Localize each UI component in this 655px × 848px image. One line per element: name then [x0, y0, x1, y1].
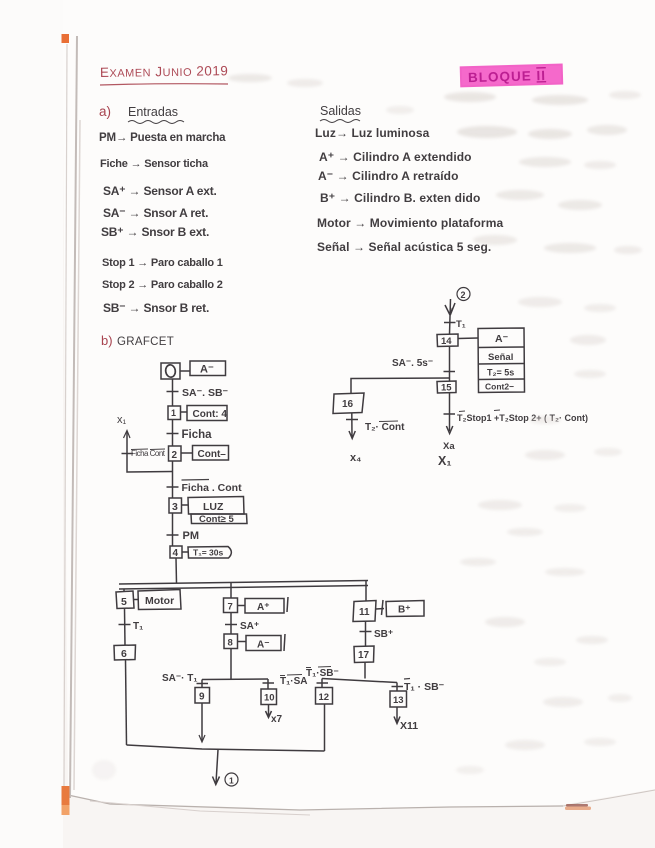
svg-text:A⁻: A⁻: [200, 364, 214, 376]
wire step3 down: [172, 513, 174, 546]
svg-text:5: 5: [121, 596, 127, 608]
svg-text:Xa: Xa: [443, 441, 455, 452]
step 14: [437, 334, 458, 347]
wire step14 down: [449, 346, 451, 381]
step 8: [224, 634, 238, 649]
svg-text:Motor: Motor: [145, 595, 174, 607]
parallel section labels: [121, 595, 445, 786]
svg-text:SB⁻ → Snsor B ret.: SB⁻ → Snsor B ret.: [103, 301, 209, 315]
salidas list: [315, 126, 503, 254]
wire step15 down: [449, 393, 451, 431]
svg-text:Salidas: Salidas: [320, 104, 361, 118]
svg-text:b): b): [101, 333, 113, 348]
OR branch wire to step 16: [351, 378, 450, 393]
link step8 to A-: [238, 641, 247, 643]
wire step1 down: [172, 420, 174, 447]
svg-text:9: 9: [199, 692, 205, 703]
svg-text:SA⁻. SB⁻: SA⁻. SB⁻: [182, 387, 229, 399]
entry arrow wire: [445, 299, 455, 334]
action box A-: [190, 361, 226, 376]
svg-text:T₁·SA: T₁·SA: [280, 676, 307, 687]
step 17: [354, 646, 374, 663]
stray stroke after A+ box: [287, 597, 288, 612]
transition tick PM: [167, 534, 179, 536]
svg-text:a): a): [99, 104, 111, 119]
transition tick exit: [444, 413, 456, 415]
title EXAMEN JUNIO 2019: [100, 63, 229, 85]
wire step4 down to divergence: [175, 558, 178, 583]
stray stroke after A- box: [284, 634, 285, 651]
heading b) GRAFCET: [101, 333, 174, 348]
right sub-diagram labels: [342, 290, 588, 468]
svg-text:Cont–: Cont–: [198, 449, 227, 460]
svg-text:A⁻: A⁻: [257, 640, 270, 651]
svg-text:Señal → Señal acústica: Señal → Señal acústica 5 seg.: [317, 240, 491, 254]
heading Salidas: [320, 104, 361, 123]
svg-text:2: 2: [172, 450, 178, 461]
svg-text:1: 1: [171, 408, 176, 418]
heading a) Entradas: [99, 104, 184, 124]
svg-text:LUZ: LUZ: [203, 501, 224, 513]
page bottom stacked edges: [68, 790, 655, 815]
feedback branch wire: [127, 432, 173, 472]
wire step9 down to convergence: [201, 703, 203, 741]
svg-text:x₄: x₄: [350, 452, 361, 464]
label Ficha(bar).Cont: [182, 480, 243, 495]
feedback transition tick: [122, 453, 134, 455]
svg-text:17: 17: [358, 650, 370, 661]
link step11 to B+: [376, 608, 384, 611]
wire step2 down: [172, 461, 174, 498]
action stack outer box: [478, 328, 525, 393]
stray stroke before B+ box: [382, 600, 384, 615]
label exit expression: [457, 410, 588, 423]
svg-text:A⁻: A⁻: [495, 333, 509, 345]
transition tick T1bar.SB-: [392, 686, 404, 688]
arrowhead step9 bottom: [199, 735, 205, 742]
action box Motor: [138, 590, 181, 610]
svg-text:8: 8: [228, 638, 233, 649]
link step5 to Motor: [134, 599, 138, 601]
link step3 to action: [182, 504, 189, 506]
svg-text:T₁·SB⁻: T₁·SB⁻: [306, 668, 339, 679]
svg-text:T₁: T₁: [133, 621, 143, 632]
svg-text:Luz→ Luz luminosa: Luz→ Luz luminosa: [315, 126, 430, 140]
svg-text:Entradas: Entradas: [128, 105, 178, 119]
svg-text:10: 10: [264, 693, 275, 704]
step 16: [333, 393, 364, 414]
link step14 to action stack: [458, 337, 478, 340]
action box Cont:4: [187, 406, 227, 421]
svg-text:T₁ · SB⁻: T₁ · SB⁻: [404, 681, 445, 693]
step 7: [224, 598, 238, 613]
step 9: [195, 688, 210, 704]
transition tick Ficha: [167, 433, 179, 435]
action box B+: [386, 601, 424, 617]
svg-text:12: 12: [319, 692, 330, 703]
transition tick T1.SA: [263, 682, 275, 684]
link step4 to action: [182, 551, 188, 553]
label T2.Contbar: [365, 421, 405, 433]
svg-text:T₂= 5s: T₂= 5s: [487, 368, 514, 378]
svg-text:Ficha Cont: Ficha Cont: [131, 449, 166, 458]
wire step8 down: [230, 649, 232, 680]
svg-text:1: 1: [229, 776, 234, 786]
wire step12 down to convergence: [324, 704, 326, 751]
transition tick T1.SB-: [317, 682, 329, 684]
svg-text:PM→ Puesta en marcha: PM→ Puesta en marcha: [99, 132, 226, 144]
step 12: [316, 688, 333, 705]
transition tick SB+: [360, 631, 372, 633]
svg-text:6: 6: [121, 648, 127, 660]
branch 2 wire: [230, 583, 232, 599]
branch 1 wire: [123, 589, 125, 593]
step 15: [437, 381, 456, 393]
svg-text:SA⁺: SA⁺: [240, 621, 259, 632]
branch 3 wire: [365, 581, 367, 601]
label T1bar.SB- (step13): [404, 679, 445, 694]
entradas list: [99, 132, 226, 315]
transition tick SA-.SB-: [167, 391, 179, 393]
transition tick SA-.5s: [444, 371, 456, 373]
svg-text:A⁺ → Cilindro A extendi: A⁺ → Cilindro A extendido: [319, 150, 472, 164]
orange tab bottom-left: [62, 786, 70, 815]
step 1: [168, 406, 181, 420]
action box Cont>=5: [191, 514, 247, 524]
circled 2 entry: [457, 288, 470, 301]
exit arrow X11: [394, 707, 400, 724]
svg-text:Cont: 4: Cont: 4: [193, 409, 228, 420]
label T1bar.SAbar: [280, 675, 307, 688]
step 0 (initial, double): [161, 363, 180, 379]
svg-text:SB⁺ → Snsor B ext.: SB⁺ → Snsor B ext.: [101, 225, 209, 239]
svg-text:Cont2−: Cont2−: [485, 382, 514, 392]
wire step6 down to convergence: [126, 660, 127, 745]
exit arrow x4: [349, 413, 355, 439]
wire step0 down: [172, 379, 174, 406]
orange smear bottom-right: [565, 804, 591, 810]
action stack divider 3: [478, 378, 524, 381]
svg-text:SA⁻. 5s⁻: SA⁻. 5s⁻: [392, 358, 433, 369]
svg-text:11: 11: [359, 607, 370, 618]
link step7 to A+: [238, 605, 246, 607]
wire step17 down: [364, 662, 366, 679]
transition tick T1 (entry): [444, 322, 456, 324]
divergence double bar: [119, 581, 368, 590]
drop wire to step 10: [267, 679, 269, 689]
svg-text:T₁= 30s: T₁= 30s: [193, 548, 223, 558]
svg-text:X11: X11: [400, 720, 418, 732]
label SA-.5s: [392, 358, 433, 369]
svg-text:x₁: x₁: [117, 414, 127, 426]
svg-text:3: 3: [172, 501, 178, 513]
svg-text:x7: x7: [271, 714, 283, 725]
link step1 to action: [181, 411, 188, 413]
svg-text:Fiche → Sensor ticha: Fiche → Sensor ticha: [100, 158, 209, 170]
step 10: [261, 689, 277, 705]
svg-text:Stop 2 → Paro caballo 2: Stop 2 → Paro caballo 2: [102, 279, 223, 291]
link step0 to action A-: [180, 370, 190, 372]
svg-text:PM: PM: [183, 530, 200, 542]
svg-text:SA⁻ → Snsor A ret.: SA⁻ → Snsor A ret.: [103, 206, 208, 220]
convergence line: [127, 745, 325, 751]
svg-text:SB⁺: SB⁺: [374, 629, 393, 640]
OR branch line under step 17: [322, 679, 397, 683]
label T1.SBbar- (step12): [306, 667, 339, 680]
step 4: [170, 546, 182, 558]
transition tick SA+: [225, 624, 237, 626]
link step2 to action: [181, 452, 193, 454]
BLOQUE II highlight: [460, 64, 564, 88]
action box A+: [245, 599, 284, 614]
step 11: [353, 601, 376, 622]
exit arrow X7: [266, 705, 272, 718]
svg-text:SA⁺ → Sensor A ext.: SA⁺ → Sensor A ext.: [103, 184, 217, 198]
exit arrowhead X1: [446, 426, 452, 434]
step 13: [390, 691, 407, 707]
svg-text:4: 4: [173, 548, 179, 559]
svg-text:A⁻ → Cilindro A retraíd: A⁻ → Cilindro A retraído: [318, 169, 459, 183]
drop wire to step 12: [321, 679, 323, 688]
drop wire to step 9: [201, 680, 203, 688]
svg-text:2: 2: [461, 290, 466, 300]
label Ficha.Cont (feedback, both overlined): [131, 449, 166, 458]
drop wire to step 13: [396, 683, 398, 692]
svg-text:Ficha . Cont: Ficha . Cont: [182, 482, 243, 494]
svg-text:B⁺: B⁺: [398, 605, 411, 616]
svg-text:T₁: T₁: [456, 319, 466, 330]
action box T1=30s: [188, 547, 231, 559]
svg-text:16: 16: [342, 399, 354, 410]
action stack divider 1: [478, 346, 524, 349]
step 2: [169, 446, 182, 461]
diagram labels main column: [171, 364, 242, 560]
wire step7 down: [230, 613, 232, 635]
wire step5 down: [124, 609, 127, 646]
action box A- (second): [246, 636, 281, 651]
svg-text:T₂Stop1 +T₂Stop 2+ ( T₂· Cont): T₂Stop1 +T₂Stop 2+ ( T₂· Cont): [457, 413, 588, 423]
svg-text:B⁺ → Cilindro B. exten: B⁺ → Cilindro B. exten dido: [320, 191, 480, 205]
svg-text:Ficha: Ficha: [182, 429, 213, 441]
svg-text:Motor → Movimiento plataform: Motor → Movimiento plataforma: [317, 216, 503, 230]
step 6: [114, 645, 136, 660]
left page crease lines: [64, 36, 80, 798]
transition tick T1: [119, 624, 131, 626]
svg-text:BLOQUE II: BLOQUE II: [468, 68, 546, 85]
feedback arrowhead: [124, 431, 131, 439]
output wire with arrow: [213, 750, 220, 785]
transition tick Ficha.Cont: [167, 486, 179, 488]
svg-text:T₂· Cont: T₂· Cont: [365, 422, 405, 433]
transition tick T2.Cont: [346, 419, 358, 421]
svg-text:13: 13: [393, 695, 404, 706]
svg-text:Señal: Señal: [488, 352, 513, 363]
circled 1 at output: [225, 773, 238, 786]
svg-text:Cont≥ 5: Cont≥ 5: [199, 514, 234, 525]
svg-text:15: 15: [441, 383, 452, 394]
action box Cont-: [193, 446, 229, 461]
svg-text:Stop 1 → Paro caballo 1: Stop 1 → Paro caballo 1: [102, 257, 223, 269]
transition tick SA-.T1: [197, 683, 209, 685]
OR branch line under step 8: [202, 678, 268, 681]
action stack divider 2: [478, 363, 524, 366]
svg-text:7: 7: [228, 602, 233, 613]
svg-text:X₁: X₁: [438, 454, 452, 468]
step 3: [169, 498, 182, 513]
step 5: [116, 591, 134, 609]
orange tab top-left: [62, 34, 70, 43]
svg-text:GRAFCET: GRAFCET: [117, 336, 174, 348]
svg-text:A⁺: A⁺: [257, 602, 270, 613]
svg-text:SA⁻· T₁: SA⁻· T₁: [162, 673, 198, 684]
action box LUZ: [188, 497, 244, 515]
wire step11 down: [365, 621, 367, 646]
svg-text:14: 14: [441, 336, 452, 347]
